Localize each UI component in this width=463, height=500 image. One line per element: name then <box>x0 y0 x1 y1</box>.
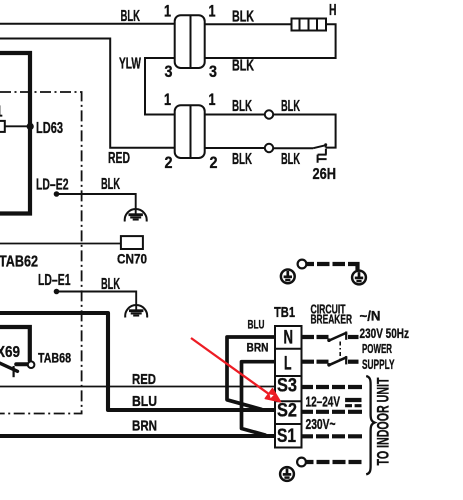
wire riser L to S1 diagonal <box>242 362 278 436</box>
svg-text:BLU: BLU <box>248 318 265 332</box>
svg-text:BLK: BLK <box>232 98 252 115</box>
svg-text:N: N <box>284 328 294 349</box>
svg-text:L: L <box>284 354 292 375</box>
node LD-E1 dot <box>54 289 60 295</box>
svg-text:CN70: CN70 <box>117 251 147 267</box>
svg-text:1: 1 <box>164 90 171 109</box>
wire contact to right vertical <box>273 115 335 148</box>
component box at left edge (LD63 source) <box>0 121 5 132</box>
svg-text:LD–E1: LD–E1 <box>38 272 71 289</box>
wire pin1 to contact circle <box>205 114 265 116</box>
svg-text:S3: S3 <box>277 376 297 397</box>
svg-text:H: H <box>329 2 337 19</box>
X69 contact circle TAB68 <box>28 361 35 368</box>
svg-text:TAB68: TAB68 <box>38 351 71 366</box>
circuit breaker dashes N row <box>301 335 329 339</box>
wire LD-E1 BLK to earth <box>57 292 137 311</box>
wire BLK top to connector pin1 <box>0 23 175 25</box>
wire contact to connector pin2 <box>205 147 265 149</box>
wire LD63 <box>5 125 29 127</box>
svg-text:2: 2 <box>165 153 173 172</box>
dashed wire S2 row <box>301 410 363 414</box>
svg-text:2: 2 <box>210 153 218 172</box>
dash-dot boundary box <box>0 92 82 414</box>
svg-text:BLK: BLK <box>121 8 141 25</box>
svg-text:LD63: LD63 <box>36 120 63 137</box>
junction dot LD63 <box>27 123 34 130</box>
svg-text:RED: RED <box>108 150 130 167</box>
dashed wire S3 row <box>301 385 363 389</box>
heater H <box>292 19 327 31</box>
wire TAB62 to CN70 <box>0 243 121 245</box>
svg-text:BREAKER: BREAKER <box>311 313 353 327</box>
svg-text:BLU: BLU <box>132 393 157 410</box>
svg-text:BLK: BLK <box>281 98 300 115</box>
svg-text:BLK: BLK <box>101 176 120 193</box>
red arrow pointing at S2 <box>191 338 281 402</box>
svg-text:3: 3 <box>209 62 217 81</box>
wire LD-E2 BLK to earth <box>57 194 136 215</box>
X69 switch stub <box>16 362 27 366</box>
wire BRN thick to S1 <box>0 434 278 438</box>
wire 26H to contact circle bottom <box>273 147 313 149</box>
svg-text:RED: RED <box>132 371 156 388</box>
breaker blade N <box>327 338 331 342</box>
svg-text:TAB62: TAB62 <box>0 254 38 271</box>
svg-text:230V 50Hz: 230V 50Hz <box>360 325 410 341</box>
svg-text:1: 1 <box>209 90 216 109</box>
wire RED thin to S3 <box>0 386 276 388</box>
svg-text:1: 1 <box>164 2 171 21</box>
svg-text:X69: X69 <box>0 344 20 361</box>
relay X69 thick box <box>0 327 30 362</box>
svg-text:TO INDOOR UNIT: TO INDOOR UNIT <box>375 378 393 466</box>
circuit breaker dashes L row <box>301 360 329 364</box>
earth symbol 1 <box>125 209 147 221</box>
svg-text:BLK: BLK <box>232 151 252 168</box>
connector CN lower (pins 1/2) <box>175 105 205 158</box>
X69 blade tick <box>13 366 15 377</box>
svg-text:TB1: TB1 <box>274 304 295 321</box>
node LD-E2 dot <box>54 191 60 197</box>
svg-text:BRN: BRN <box>132 418 157 435</box>
wire left vertical RED circuit <box>0 39 175 148</box>
thermal switch 26H <box>325 146 327 148</box>
svg-text:S1: S1 <box>277 426 296 447</box>
svg-text:BLK: BLK <box>281 151 300 168</box>
svg-text:LD–E2: LD–E2 <box>36 177 69 194</box>
earth line bottom: open circle <box>297 458 306 467</box>
svg-text:12–24V: 12–24V <box>306 394 341 411</box>
wire heater to pin3 loop <box>205 24 336 58</box>
svg-text:YLW: YLW <box>119 56 142 73</box>
circled earth left <box>281 270 295 284</box>
breaker linkage dash-dot <box>339 342 341 361</box>
svg-text:BLK: BLK <box>232 9 254 26</box>
svg-text:S2: S2 <box>277 401 297 422</box>
earth line top dashes <box>307 262 345 266</box>
brace TO INDOOR UNIT <box>366 376 374 474</box>
circled earth bottom <box>280 467 294 481</box>
svg-text:SUPPLY: SUPPLY <box>362 357 395 372</box>
PCB thick box top-left <box>0 53 30 214</box>
PCB thick box 2 with BLU wire to S2 <box>0 313 278 410</box>
dashed wire S1 row <box>301 434 363 438</box>
svg-text:230V~: 230V~ <box>306 416 336 433</box>
contact circle bottom <box>265 144 273 152</box>
circled earth right <box>352 271 366 285</box>
wire connector pin1 to heater H <box>205 23 292 25</box>
connector CN70 <box>121 236 143 249</box>
svg-text:1: 1 <box>209 2 216 21</box>
svg-text:~/N: ~/N <box>360 308 381 324</box>
wire riser N to S2 diagonal <box>227 337 277 410</box>
svg-text:POWER: POWER <box>362 341 392 356</box>
earth symbol 2 <box>125 305 147 317</box>
terminal block TB1 <box>275 326 302 448</box>
DC symbol 12-24V <box>345 398 361 402</box>
svg-text:1: 1 <box>0 103 3 120</box>
svg-text:3: 3 <box>165 62 173 81</box>
connector CN (pins 1/3) <box>175 15 205 68</box>
svg-text:26H: 26H <box>313 166 337 183</box>
contact circle top <box>265 110 273 118</box>
wire YLW pin3 to pin1 of lower connector <box>145 58 175 115</box>
earth line bottom dashes <box>306 460 361 464</box>
breaker blade L <box>327 363 331 367</box>
X69 switch blade <box>0 363 18 372</box>
svg-text:BLK: BLK <box>101 276 120 293</box>
earth line top: open circle <box>298 260 307 269</box>
svg-text:BRN: BRN <box>247 341 269 355</box>
svg-text:BLK: BLK <box>232 58 254 75</box>
